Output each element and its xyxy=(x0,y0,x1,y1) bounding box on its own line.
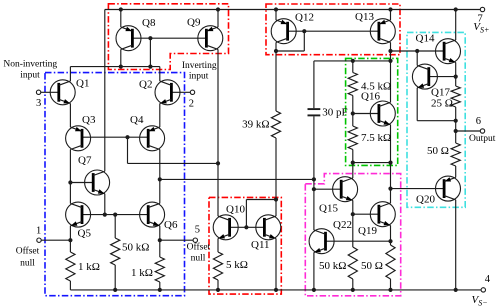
svg-text:Offset: Offset xyxy=(16,245,40,256)
svg-text:5: 5 xyxy=(195,225,200,236)
svg-text:null: null xyxy=(20,258,35,268)
svg-text:Q4: Q4 xyxy=(130,114,144,126)
svg-text:input: input xyxy=(189,71,209,81)
svg-text:Q22: Q22 xyxy=(333,219,352,231)
svg-text:Offset: Offset xyxy=(187,242,211,253)
svg-text:25 Ω: 25 Ω xyxy=(431,97,453,109)
svg-text:Q11: Q11 xyxy=(251,239,270,251)
svg-text:4.5 kΩ: 4.5 kΩ xyxy=(361,80,391,92)
svg-text:Q20: Q20 xyxy=(416,193,435,205)
svg-text:Output: Output xyxy=(469,134,496,144)
svg-text:Q3: Q3 xyxy=(82,114,96,126)
svg-text:Q7: Q7 xyxy=(78,155,92,167)
svg-text:Q14: Q14 xyxy=(416,33,435,45)
svg-text:1 kΩ: 1 kΩ xyxy=(131,267,153,279)
svg-text:30 pF: 30 pF xyxy=(322,107,347,119)
svg-text:Q12: Q12 xyxy=(295,12,314,24)
svg-text:1 kΩ: 1 kΩ xyxy=(78,261,100,273)
svg-text:1: 1 xyxy=(36,225,41,236)
svg-text:7.5 kΩ: 7.5 kΩ xyxy=(361,132,391,144)
svg-text:Q5: Q5 xyxy=(78,227,92,239)
svg-text:6: 6 xyxy=(476,116,481,127)
svg-text:50 kΩ: 50 kΩ xyxy=(319,260,346,272)
svg-text:Q6: Q6 xyxy=(164,219,178,231)
svg-text:39 kΩ: 39 kΩ xyxy=(242,118,269,130)
svg-text:3: 3 xyxy=(36,98,41,109)
svg-text:50 Ω: 50 Ω xyxy=(361,260,383,272)
svg-text:Q2: Q2 xyxy=(139,79,152,91)
svg-text:50 kΩ: 50 kΩ xyxy=(122,242,149,254)
svg-text:Q15: Q15 xyxy=(319,203,338,215)
svg-text:2: 2 xyxy=(189,98,194,109)
svg-text:input: input xyxy=(20,70,40,80)
svg-text:Non-inverting: Non-inverting xyxy=(3,59,57,69)
svg-text:Q13: Q13 xyxy=(355,11,374,23)
svg-text:5 kΩ: 5 kΩ xyxy=(226,259,248,271)
svg-text:4: 4 xyxy=(485,274,491,285)
svg-text:Inverting: Inverting xyxy=(182,61,217,71)
svg-text:Q19: Q19 xyxy=(358,225,377,237)
svg-text:Q1: Q1 xyxy=(76,78,89,90)
svg-text:Q8: Q8 xyxy=(142,17,156,29)
svg-text:null: null xyxy=(191,254,206,264)
svg-text:Q10: Q10 xyxy=(226,204,245,216)
svg-text:Q9: Q9 xyxy=(187,17,201,29)
svg-text:50 Ω: 50 Ω xyxy=(427,145,449,157)
